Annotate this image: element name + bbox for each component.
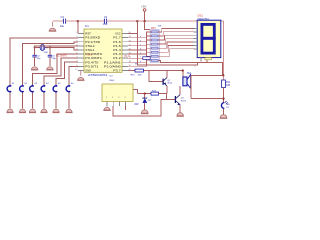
ground IC2 pin1 xyxy=(103,106,110,111)
wire Q2 base xyxy=(159,94,176,100)
svg-text:10K: 10K xyxy=(158,26,162,28)
svg-text:4: 4 xyxy=(124,97,125,99)
ground xyxy=(46,67,53,70)
wire right column from +5V rail xyxy=(223,21,225,80)
svg-text:DS1: DS1 xyxy=(198,13,204,17)
wire Q1 collector up xyxy=(166,71,168,78)
digit 8 xyxy=(202,24,214,53)
wire IC2 pin2 U route xyxy=(113,100,166,117)
svg-text:R8: R8 xyxy=(135,64,137,66)
svg-text:P1.1/AIN1: P1.1/AIN1 xyxy=(104,60,121,64)
wire button S3 to P3.2 xyxy=(33,54,79,85)
node pin numbers xyxy=(75,32,77,71)
svg-text:IC1: IC1 xyxy=(85,25,89,28)
svg-text:C3: C3 xyxy=(61,15,65,19)
capacitor C5 xyxy=(49,48,51,56)
svg-text:4V7: 4V7 xyxy=(148,100,151,102)
svg-text:1NF: 1NF xyxy=(103,23,108,26)
transistor Q2 9013 xyxy=(175,95,186,106)
wire IC2 right corner to zener node xyxy=(133,90,137,94)
wire xyxy=(107,20,224,22)
svg-text:3: 3 xyxy=(118,97,119,99)
wire button S6 to P3.5 xyxy=(69,66,78,85)
node junction xyxy=(222,74,224,76)
wire P3.7 line xyxy=(128,70,183,72)
wire button S4 to P3.3 xyxy=(44,58,78,85)
wire to speaker top xyxy=(182,71,184,77)
wire MCU P1.x to pack inputs xyxy=(128,32,151,66)
crystal Y1 xyxy=(34,47,36,49)
display bottom tab xyxy=(205,58,212,60)
svg-text:P3.5/T1: P3.5/T1 xyxy=(85,64,99,68)
svg-text:P3.7: P3.7 xyxy=(113,68,121,72)
wire VCC drop xyxy=(137,21,197,65)
ground under S3 xyxy=(29,109,36,113)
transistor Q1 9012 xyxy=(163,78,173,86)
node +5V junction xyxy=(144,20,146,22)
wire Q1 emitter down to node xyxy=(166,86,168,94)
diode DW zener xyxy=(144,94,146,98)
wire Q2 collector up to speaker node xyxy=(179,86,181,95)
speaker BL1 xyxy=(183,73,192,88)
wire button S5 to P3.4 xyxy=(56,62,78,85)
svg-text:Y1: Y1 xyxy=(45,47,47,49)
svg-text:P1.4: P1.4 xyxy=(113,48,121,52)
svg-text:e: e xyxy=(140,53,141,55)
wire xyxy=(223,109,225,114)
svg-text:P3.1/TXD: P3.1/TXD xyxy=(85,40,100,44)
node VCC junction xyxy=(136,20,138,22)
switch S1 key symbol (defs) xyxy=(7,85,11,93)
svg-text:10: 10 xyxy=(75,69,77,71)
resistor R12 on P3.7 line xyxy=(135,69,144,72)
LED D1 xyxy=(221,101,230,109)
IC IC1 AT89C2051 body xyxy=(84,25,122,77)
display pins left xyxy=(194,28,198,48)
switch S4 key xyxy=(41,85,45,93)
ground under S2 xyxy=(19,109,26,113)
wire base drop to Q1 xyxy=(149,71,163,82)
ground under Q2 xyxy=(177,113,184,117)
wire XTAL1 xyxy=(50,48,78,50)
resistor R13 (Q2 base) xyxy=(137,93,151,95)
wire xyxy=(223,88,225,103)
svg-text:LED: LED xyxy=(226,104,231,106)
svg-text:XTAL2: XTAL2 xyxy=(85,44,95,48)
switch S6 key xyxy=(66,85,70,93)
svg-text:10u: 10u xyxy=(60,24,65,28)
svg-text:a: a xyxy=(140,36,141,38)
node junction xyxy=(222,98,224,100)
ground under S4 xyxy=(40,109,47,113)
svg-text:20: 20 xyxy=(129,32,131,34)
wire IC2 pin4 xyxy=(125,106,127,110)
MCU pin labels right xyxy=(104,32,121,73)
wire xyxy=(191,75,223,77)
svg-text:+5V: +5V xyxy=(141,5,146,9)
svg-text:g: g xyxy=(140,61,141,63)
wire button stems to grounds xyxy=(10,92,69,108)
ground xyxy=(31,67,38,70)
svg-text:10K: 10K xyxy=(138,74,142,76)
svg-text:INT0: INT0 xyxy=(87,53,93,56)
wire xyxy=(66,20,104,22)
svg-text:b: b xyxy=(140,40,141,42)
IC2 pin stubs xyxy=(107,102,126,106)
ground under S1 xyxy=(6,109,13,113)
ground under S6 xyxy=(65,109,72,113)
wire button S1 to P3.0 xyxy=(10,38,78,85)
switch S3 key xyxy=(30,85,34,93)
svg-text:VCC: VCC xyxy=(115,32,121,36)
svg-text:P3.2/INT0: P3.2/INT0 xyxy=(56,54,67,57)
svg-text:24M: 24M xyxy=(44,52,48,54)
node junction speaker xyxy=(182,70,184,72)
wire speaker bottom / Q2 collector node xyxy=(191,76,223,99)
svg-text:P1.7: P1.7 xyxy=(113,36,121,40)
wire VCC stub link xyxy=(128,33,137,35)
node tiny blue net labels xyxy=(135,36,141,65)
wire XTAL2 xyxy=(35,46,78,48)
wire xyxy=(53,20,64,22)
ground under zener xyxy=(141,110,148,114)
svg-text:c: c xyxy=(140,44,141,46)
capacitor C2 (inline 1nF) xyxy=(104,19,106,24)
wire xyxy=(77,21,79,33)
svg-text:P1.2: P1.2 xyxy=(113,56,121,60)
svg-text:d: d xyxy=(140,49,141,51)
7-seg display DS1 xyxy=(194,13,221,67)
svg-text:GND: GND xyxy=(85,68,91,72)
MCU pin labels left xyxy=(85,32,102,73)
svg-text:P1.3: P1.3 xyxy=(125,55,131,58)
ground under S5 xyxy=(52,109,59,113)
svg-text:1: 1 xyxy=(106,97,107,99)
MCU pin stubs right xyxy=(122,34,128,71)
svg-text:BL1: BL1 xyxy=(187,73,192,75)
resistor R11 xyxy=(222,80,226,88)
wire staircase pack to display xyxy=(158,28,194,56)
svg-text:RP1: RP1 xyxy=(151,27,156,30)
svg-text:9300: 9300 xyxy=(109,80,115,82)
svg-text:P1.6: P1.6 xyxy=(113,40,121,44)
resistor RP1 pack xyxy=(150,26,162,63)
svg-text:P1.0/AIN0: P1.0/AIN0 xyxy=(104,64,121,68)
svg-text:12R: 12R xyxy=(226,85,231,87)
resistor R9 inline xyxy=(143,57,150,60)
svg-text:P1.3: P1.3 xyxy=(113,52,121,56)
ground xyxy=(220,115,227,119)
capacitor C3 (reset) xyxy=(63,19,65,24)
svg-text:RST: RST xyxy=(85,32,91,36)
wire +5V to resistor pack xyxy=(145,21,151,29)
wire Q2 emitter to ground xyxy=(179,105,181,113)
switch S2 key xyxy=(20,85,24,93)
MCU pin stubs left xyxy=(78,34,84,71)
svg-text:1: 1 xyxy=(76,32,77,34)
svg-text:2: 2 xyxy=(112,97,113,99)
IC IC2 music chip body xyxy=(102,76,133,102)
node RST junction xyxy=(77,20,79,22)
node zener junction xyxy=(144,93,146,95)
svg-text:9013: 9013 xyxy=(181,101,187,103)
wire pack row8 to display common xyxy=(158,60,223,75)
svg-text:9012: 9012 xyxy=(167,83,173,85)
svg-text:P1.5: P1.5 xyxy=(113,44,121,48)
svg-text:P3.3/INT1: P3.3/INT1 xyxy=(85,56,102,60)
ground xyxy=(49,22,56,31)
ground MCU GND pin xyxy=(77,70,84,80)
capacitor C4 xyxy=(34,48,36,56)
svg-text:AT89C2051: AT89C2051 xyxy=(88,73,108,77)
switch S5 key xyxy=(53,85,57,93)
svg-text:XTAL1: XTAL1 xyxy=(85,48,95,52)
svg-text:P3.4/T0: P3.4/T0 xyxy=(85,60,99,64)
svg-text:P3.0/RXD: P3.0/RXD xyxy=(85,36,100,40)
wire button S2 to P3.1 xyxy=(23,42,79,85)
